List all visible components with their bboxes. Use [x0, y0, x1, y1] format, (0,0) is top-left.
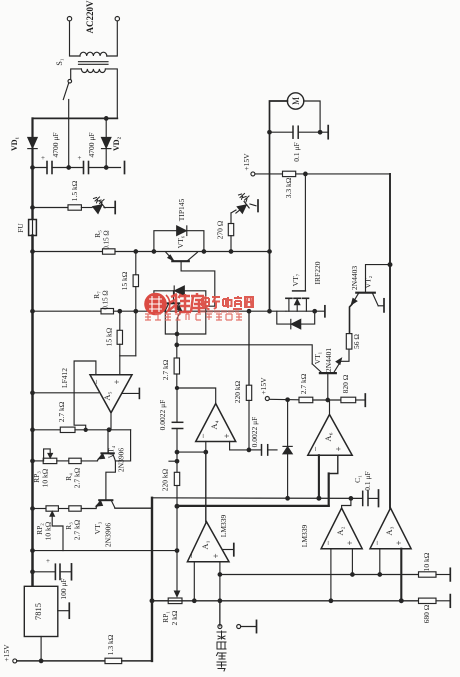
svg-text:+: +: [345, 540, 355, 545]
wire switch to top rail: [68, 100, 70, 119]
wire VT3 emitter step: [115, 498, 152, 508]
wire A4 minus line: [177, 451, 206, 453]
wire VT2 to 56R: [350, 304, 353, 333]
wire jog 15k chains: [120, 355, 136, 357]
svg-text:680 Ω: 680 Ω: [422, 604, 431, 623]
node VD2 cap: [104, 166, 108, 170]
watermark char ku: [191, 293, 205, 313]
op-amp A2: [321, 508, 362, 549]
potentiometer RP2: [46, 506, 58, 511]
node wiper RP1 left...: [150, 599, 154, 603]
wire R5 to motor column: [115, 251, 270, 253]
regulator 7815: [24, 586, 58, 636]
resistor R4: [69, 458, 81, 463]
capacitor 0.1uF snubber: [292, 126, 294, 138]
wire motor left: [270, 101, 288, 311]
svg-text:+15V: +15V: [259, 377, 268, 395]
node rail/cap: [31, 166, 35, 170]
svg-text:2.7 kΩ: 2.7 kΩ: [161, 359, 170, 380]
node A4 chain top: [175, 343, 179, 347]
wire left rail: [31, 236, 34, 587]
wire to LED: [81, 207, 92, 209]
resistor 680R: [419, 598, 437, 603]
svg-text:4700 μF: 4700 μF: [51, 132, 60, 157]
svg-text:4700 μF: 4700 μF: [87, 132, 96, 157]
svg-text:10 kΩ: 10 kΩ: [41, 468, 50, 487]
wire A4 output: [177, 388, 216, 404]
wire bottom line: [17, 660, 105, 662]
node 15k top: [134, 250, 138, 254]
svg-text:2N3906: 2N3906: [117, 448, 126, 472]
wire VT4 to VT3 base: [106, 461, 116, 500]
svg-text:−: −: [187, 553, 197, 558]
svg-text:2N4403: 2N4403: [350, 266, 359, 290]
wire RP3 to R4: [57, 460, 69, 462]
transistor VT5: [168, 302, 180, 304]
wire VT6 base: [181, 261, 215, 306]
wire control signal terminal: [219, 601, 221, 625]
ground bar LED2: [257, 200, 259, 212]
node diode rail: [286, 497, 290, 501]
svg-text:220 kΩ: 220 kΩ: [233, 380, 242, 403]
arrow RP1 wiper: [176, 506, 178, 590]
wire A6 output to VT1 base: [329, 400, 331, 415]
svg-text:−: −: [372, 540, 382, 545]
svg-text:VT₄: VT₄: [107, 445, 116, 458]
resistor 220k1: [248, 311, 250, 385]
node 220k1 top: [247, 309, 251, 313]
wire rail to wiper line y550: [33, 550, 178, 552]
svg-text:+: +: [211, 553, 221, 558]
svg-text:0.0022 μF: 0.0022 μF: [158, 400, 167, 431]
ground bar 680R: [449, 595, 451, 608]
wire A2 output: [342, 498, 351, 508]
capacitor 0.0022uF A4 feedback: [176, 388, 178, 422]
wire 2.7k to base node: [313, 399, 341, 401]
label control signal: [217, 631, 227, 671]
wire A5 minus loop: [74, 361, 96, 430]
node A4 minus: [204, 450, 208, 454]
mosfet VT7 gate bar: [293, 290, 306, 292]
wire +15V mid line: [269, 398, 299, 401]
resistor 2.7k VT1: [299, 397, 313, 403]
wire 56R to VT1: [341, 349, 349, 361]
node snubber right: [318, 130, 322, 134]
wire VT5 to VT1 line: [176, 334, 178, 345]
fuse FU: [31, 208, 33, 220]
svg-text:−: −: [92, 379, 102, 384]
svg-text:0.15 Ω: 0.15 Ω: [103, 230, 111, 249]
svg-text:+: +: [41, 154, 45, 162]
node A4 plus: [247, 448, 251, 452]
node snubber left: [268, 130, 272, 134]
wire rail caps to LED line: [31, 168, 33, 208]
svg-text:−: −: [198, 433, 208, 438]
svg-text:0.0022 μF: 0.0022 μF: [250, 417, 259, 448]
svg-text:VT₃: VT₃: [93, 521, 102, 534]
svg-text:−: −: [311, 446, 321, 451]
ground bar C1: [378, 490, 380, 507]
svg-text:270 Ω: 270 Ω: [216, 220, 225, 239]
watermark text dianzi shichang wang: [202, 296, 253, 309]
node A4 minus line left: [175, 450, 179, 454]
op-amp A1: [187, 522, 229, 562]
op-amp A6: [308, 415, 352, 456]
transistor VT4: [101, 452, 113, 454]
wire gate column: [304, 174, 306, 291]
node rail R5 line: [31, 250, 35, 254]
svg-text:820 Ω: 820 Ω: [341, 374, 350, 393]
transistor VT2: [356, 292, 375, 294]
wire 7815 output: [40, 637, 42, 661]
svg-text:2.7 kΩ: 2.7 kΩ: [73, 519, 82, 540]
ground bar snubber: [327, 126, 329, 139]
wire R3 to VT3: [81, 508, 96, 510]
ground bar VT2: [383, 299, 385, 312]
transistor VT6 TIP145: [172, 260, 189, 262]
svg-text:2.7 kΩ: 2.7 kΩ: [299, 373, 308, 394]
terminal common: [237, 625, 241, 629]
svg-text:10 kΩ: 10 kΩ: [422, 552, 431, 571]
resistor 2.7k A5: [60, 427, 75, 432]
motor M: [287, 93, 303, 109]
svg-text:IRF220: IRF220: [313, 261, 322, 284]
mosfet VT7 source stub arrow: [296, 298, 298, 311]
resistor 1.5k: [68, 205, 81, 210]
node diode loop left: [152, 250, 156, 254]
wire AC left: [70, 21, 81, 56]
svg-text:A₁: A₁: [200, 540, 210, 549]
svg-text:3.3 kΩ: 3.3 kΩ: [284, 177, 293, 198]
wire RP2 R3 line: [33, 508, 47, 510]
svg-text:VT₁: VT₁: [313, 351, 322, 364]
resistor 220k2: [176, 452, 178, 472]
node 270R top: [229, 250, 233, 254]
mosfet VT7 drain2 stub: [305, 298, 307, 311]
wire secondary left to switch: [71, 69, 82, 79]
potentiometer RP3: [43, 458, 57, 463]
svg-text:2N4401: 2N4401: [324, 348, 333, 372]
capacitor 100uF: [33, 571, 56, 573]
capacitor C 4700uF left: [46, 162, 48, 174]
svg-text:+: +: [46, 557, 50, 565]
node top rail / VD2: [104, 117, 108, 121]
mosfet VT7 drain stub: [288, 298, 290, 311]
switch S1: [68, 79, 72, 83]
svg-text:VT₆: VT₆: [176, 235, 185, 248]
resistor 15k upper: [135, 252, 137, 275]
body diode loop: [277, 311, 315, 324]
svg-text:C₁: C₁: [353, 475, 362, 483]
ground bar A5: [138, 388, 140, 398]
svg-text:56 Ω: 56 Ω: [352, 334, 361, 349]
resistor 3.3k: [283, 171, 296, 176]
svg-text:LF412: LF412: [60, 368, 69, 388]
svg-text:R₇: R₇: [92, 291, 101, 299]
wire source line: [286, 310, 324, 312]
wire right column: [389, 174, 391, 508]
wire A2 plus: [351, 549, 353, 575]
transformer T1 core: [79, 61, 109, 63]
node 220k2 tap: [175, 459, 179, 463]
wire LED2 to bar: [231, 204, 256, 213]
svg-text:FU: FU: [16, 223, 25, 233]
wire A5 output: [110, 413, 112, 430]
svg-text:+15V: +15V: [2, 644, 11, 662]
svg-text:7815: 7815: [33, 603, 43, 620]
svg-text:15 kΩ: 15 kΩ: [120, 271, 129, 290]
node rail R7 line: [31, 309, 35, 313]
wire motor right: [304, 101, 320, 132]
svg-text:VT₂: VT₂: [364, 275, 373, 288]
resistor 1.3k: [105, 658, 122, 663]
svg-text:2N3906: 2N3906: [104, 523, 113, 547]
svg-text:VD₁: VD₁: [10, 136, 19, 151]
wire R7 line to mosfet: [114, 310, 287, 312]
ground bar 100uF: [71, 564, 73, 580]
wire AC right: [107, 21, 118, 56]
svg-text:0.1 μF: 0.1 μF: [363, 471, 372, 490]
diode VD bypass loop of VT6: [154, 231, 204, 252]
wire A3 minus: [379, 549, 381, 575]
ground bar source: [324, 306, 326, 317]
node VT5 bottom: [175, 332, 179, 336]
svg-text:TIP145: TIP145: [177, 199, 186, 222]
svg-text:+: +: [394, 540, 404, 545]
svg-text:RP₁: RP₁: [161, 611, 170, 623]
resistor R7 0.15: [101, 309, 114, 314]
ground bar 10k: [449, 568, 451, 581]
wire A1 plus: [219, 562, 221, 626]
svg-text:S₁: S₁: [55, 58, 64, 65]
node body diode right: [313, 309, 317, 313]
svg-text:0.1 μF: 0.1 μF: [292, 142, 301, 161]
watermark char wei: [168, 294, 191, 313]
wire to VT4 collector: [115, 430, 130, 461]
transformer T1 primary: [80, 52, 107, 56]
wire centre tap: [68, 118, 70, 167]
svg-text:M: M: [291, 97, 301, 105]
svg-text:+: +: [78, 154, 82, 162]
wire A1 output column: [205, 452, 207, 522]
svg-text:A₆: A₆: [323, 432, 333, 441]
wire RP3 R4 line: [33, 460, 44, 462]
wire snubber line: [270, 131, 294, 133]
transistor VT3: [99, 499, 112, 501]
node 15k1 bottom: [134, 309, 138, 313]
wire RP1 left: [152, 600, 168, 602]
wire 7815 gnd pin: [58, 610, 69, 612]
wire A2 minus: [330, 549, 332, 601]
wire line y575: [220, 574, 419, 576]
wire secondary right down: [105, 69, 117, 119]
wire thin rail y498: [152, 497, 363, 500]
wire 15k chain to jog: [135, 311, 137, 356]
svg-text:2.7 kΩ: 2.7 kΩ: [57, 401, 66, 422]
op-amp A4: [196, 404, 236, 442]
ground bar 7815: [68, 603, 70, 618]
LED VL1: [93, 201, 105, 213]
resistor 2.7k A4out: [176, 345, 178, 358]
watermark row quanqiu: [145, 314, 242, 320]
capacitor 0.0022uF 2: [249, 449, 262, 451]
svg-text:10 kΩ: 10 kΩ: [44, 521, 53, 540]
diode VT5 loop: [175, 286, 185, 296]
wire R4 to VT4: [81, 460, 97, 462]
wire LED line: [33, 207, 69, 209]
node A5 output: [107, 428, 111, 432]
wire R7 line: [33, 310, 102, 312]
wire A5 power right: [122, 392, 139, 394]
wire A3 plus: [400, 549, 402, 601]
LED VL2: [233, 201, 249, 216]
potentiometer RP1: [168, 598, 182, 604]
wire A5 feedback line: [33, 429, 61, 431]
svg-text:A₄: A₄: [209, 420, 219, 429]
wire 3.3k to right column: [296, 173, 390, 175]
svg-text:2 kΩ: 2 kΩ: [170, 610, 179, 625]
resistor 56R: [346, 334, 352, 350]
resistor R5 0.15: [103, 249, 116, 254]
resistor 10k: [419, 572, 437, 577]
ground bar LED: [114, 202, 116, 214]
svg-text:VT₇: VT₇: [291, 273, 300, 286]
wire line y601: [152, 600, 419, 602]
wire A4 minus input: [205, 442, 207, 453]
node A6 minus rail: [317, 496, 321, 500]
wire 820R to bar: [356, 399, 365, 401]
svg-text:LM339: LM339: [219, 515, 228, 538]
resistor 820R: [341, 397, 356, 403]
watermark weiku logo disc: [144, 293, 170, 316]
svg-text:+: +: [334, 446, 344, 451]
node A4 fb: [175, 386, 178, 389]
mosfet VT7 channel: [286, 297, 292, 299]
wire LED to bar: [104, 207, 115, 209]
diode +15 to rail: [287, 400, 289, 446]
wire VT2 base: [366, 265, 391, 293]
resistor 270R: [228, 224, 233, 236]
svg-text:AC220V: AC220V: [85, 0, 95, 33]
node VT5 loop left: [152, 309, 156, 313]
node diode branch: [286, 398, 290, 402]
svg-text:−: −: [323, 540, 333, 545]
op-amp A5: [90, 375, 132, 413]
diode VD2: [105, 118, 107, 137]
capacitor C1: [362, 491, 364, 505]
svg-text:A₃: A₃: [384, 526, 394, 535]
AC input terminal right: [115, 17, 119, 21]
terminal +15V top: [251, 172, 255, 176]
node gate column: [304, 172, 308, 176]
wire filter caps line: [33, 167, 48, 169]
svg-text:A₂: A₂: [335, 526, 345, 535]
wire RP2 to R3: [58, 508, 68, 510]
wire A1 minus: [193, 562, 195, 601]
wire R5 line: [33, 251, 103, 253]
wire A6 plus step: [329, 455, 338, 473]
node VT2 base tap: [388, 263, 392, 267]
watermark phone row: [201, 310, 238, 313]
svg-text:VD₂: VD₂: [112, 136, 121, 151]
svg-text:2.7 kΩ: 2.7 kΩ: [73, 467, 82, 488]
rectangle loop VT5: [154, 291, 206, 334]
svg-text:LM339: LM339: [300, 525, 309, 548]
ground bar caps: [124, 162, 126, 174]
node diode loop right: [202, 250, 206, 254]
svg-text:+15V: +15V: [242, 153, 251, 171]
svg-text:A₅: A₅: [102, 391, 112, 400]
terminal +15V mid: [265, 397, 269, 401]
wire +15V line: [255, 173, 283, 175]
svg-text:1.3 kΩ: 1.3 kΩ: [106, 634, 115, 655]
svg-text:1.5 kΩ: 1.5 kΩ: [70, 180, 79, 201]
wire 2.7k to output node: [75, 429, 131, 431]
resistor R3: [69, 506, 81, 511]
terminal +15V bottom: [13, 659, 17, 663]
node centre tap: [67, 166, 71, 170]
wire thick RP1 wiper to A6 plus: [177, 505, 329, 507]
wire 1.3k to column: [122, 660, 152, 662]
svg-text:R₅: R₅: [93, 230, 102, 238]
wire A1 power bar: [222, 549, 233, 551]
diode VD1: [31, 118, 33, 137]
wire VT1 collector to VT5 line: [177, 345, 312, 364]
node RP1 wiper line: [175, 504, 179, 508]
transformer T1 secondary: [81, 69, 105, 73]
capacitor C 4700uF right: [83, 162, 85, 174]
wire A6 minus input: [318, 455, 320, 498]
node motor column bottom: [268, 309, 272, 313]
svg-text:220 kΩ: 220 kΩ: [161, 468, 170, 491]
node A2 out rail: [349, 497, 353, 501]
wire A4 plus input: [230, 442, 249, 450]
svg-text:0.15 Ω: 0.15 Ω: [102, 290, 110, 309]
wire A5 power left: [33, 392, 99, 394]
wire top rail: [33, 117, 118, 119]
ground bar 820R: [364, 394, 366, 406]
node 15k2 top: [118, 309, 122, 313]
wire +15V feed column: [151, 498, 153, 661]
svg-text:+: +: [222, 433, 232, 438]
svg-text:15 kΩ: 15 kΩ: [105, 327, 114, 346]
AC input terminal left: [67, 17, 71, 21]
node VT1 base: [326, 398, 330, 402]
ground bar common: [256, 620, 258, 632]
svg-text:100 μF: 100 μF: [59, 578, 68, 599]
op-amp A3: [370, 508, 411, 549]
wire VT1 base: [327, 373, 329, 400]
transistor VT1: [320, 372, 336, 374]
svg-text:+: +: [112, 379, 122, 384]
resistor 15k lower: [119, 311, 121, 330]
